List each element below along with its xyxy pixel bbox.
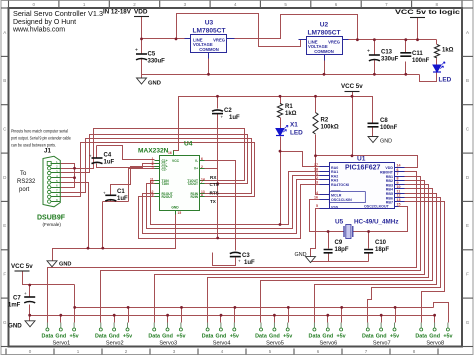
connector Servo2 — [95, 323, 132, 347]
svg-text:R2OUT: R2OUT — [162, 195, 173, 199]
svg-text:Servo3: Servo3 — [159, 341, 177, 347]
svg-text:VCC 5v: VCC 5v — [11, 263, 33, 270]
svg-text:RA4TOCKI: RA4TOCKI — [331, 183, 349, 187]
wire +5V rail — [75, 303, 449, 323]
svg-text:100nF: 100nF — [412, 58, 430, 64]
capacitor C9 18pF — [324, 250, 333, 253]
svg-text:R1: R1 — [285, 104, 293, 110]
svg-text:To: To — [20, 171, 27, 177]
svg-text:Gnd: Gnd — [216, 334, 227, 340]
wire J1 pin5 ground — [61, 183, 89, 249]
resistor 1k top right — [434, 45, 439, 59]
wire 1k resistor leads and LED — [406, 40, 437, 82]
svg-text:+5v: +5v — [390, 334, 399, 340]
wire TTL line 4 U4 to U1 — [139, 185, 320, 239]
svg-text:Gnd: Gnd — [269, 334, 280, 340]
wire C2 leads — [205, 97, 218, 239]
svg-text:Servo5: Servo5 — [266, 341, 284, 347]
capacitor C2 1uF — [212, 110, 223, 111]
svg-text:C5: C5 — [148, 52, 156, 58]
svg-text:13: 13 — [397, 198, 401, 202]
connector Servo1 — [42, 323, 79, 347]
svg-text:Servo7: Servo7 — [373, 341, 391, 347]
svg-text:VSS: VSS — [331, 205, 339, 209]
svg-text:C8: C8 — [380, 118, 388, 124]
svg-text:+5v: +5v — [283, 334, 292, 340]
svg-text:3: 3 — [316, 180, 318, 184]
svg-text:1uF: 1uF — [244, 260, 255, 266]
svg-text:RS232: RS232 — [17, 179, 36, 185]
LED top right — [433, 65, 441, 72]
svg-text:T2OUT: T2OUT — [187, 182, 198, 186]
svg-text:A: A — [3, 30, 6, 35]
svg-text:100kΩ: 100kΩ — [321, 125, 339, 131]
wire crystal net OSC1 — [310, 200, 345, 232]
svg-text:PIC16F627: PIC16F627 — [345, 165, 381, 172]
capacitor C11 100nF — [400, 53, 411, 56]
svg-text:LED: LED — [290, 130, 303, 137]
wire RB5 to Servo6 data — [315, 194, 437, 323]
svg-text:6: 6 — [201, 157, 203, 161]
capacitor C8 100nF — [368, 123, 379, 127]
svg-text:Servo8: Servo8 — [426, 341, 444, 347]
wire RB3 to Servo4 data — [208, 185, 429, 323]
svg-text:Data: Data — [309, 334, 322, 340]
ground bottom left — [25, 321, 35, 327]
svg-text:V+: V+ — [194, 167, 198, 171]
svg-text:Data: Data — [95, 334, 108, 340]
resistor R1 1k — [277, 104, 282, 118]
power symbol VCC 5v (mid right) — [345, 91, 360, 93]
svg-text:VDD: VDD — [134, 9, 148, 16]
connector Servo7 — [362, 323, 399, 347]
svg-text:C4: C4 — [104, 153, 112, 159]
svg-text:16: 16 — [168, 151, 172, 155]
wire RS232 line 1 J1 to U4 — [61, 129, 245, 181]
capacitor C1 1uF — [105, 194, 116, 196]
svg-text:VCC 5v: VCC 5v — [341, 83, 363, 90]
svg-text:GND: GND — [148, 81, 161, 87]
svg-text:LM7805CT: LM7805CT — [308, 30, 341, 37]
svg-text:F: F — [466, 272, 469, 277]
svg-text:B: B — [3, 78, 6, 83]
wire RS232 line 2 J1 to U4 — [61, 135, 248, 184]
svg-text:+: + — [103, 191, 106, 196]
svg-text:18pF: 18pF — [375, 247, 389, 253]
wire C8 branch — [353, 97, 373, 137]
svg-text:Data: Data — [415, 334, 428, 340]
svg-text:2: 2 — [201, 165, 203, 169]
resistor R2 100k — [313, 113, 318, 135]
svg-text:Servo6: Servo6 — [320, 341, 338, 347]
svg-text:8: 8 — [201, 193, 203, 197]
svg-text:C10: C10 — [375, 240, 387, 246]
capacitor C5 330uF — [136, 53, 147, 55]
svg-text:J1: J1 — [44, 148, 51, 155]
svg-text:C11: C11 — [412, 51, 423, 57]
wire C4 connections — [97, 146, 155, 168]
svg-text:port: port — [19, 187, 30, 193]
wire RB1 to Servo2 data — [101, 177, 421, 323]
svg-text:U3: U3 — [205, 20, 214, 27]
connector Servo4 — [202, 323, 239, 347]
svg-text:IN 12-18V: IN 12-18V — [103, 9, 132, 16]
wire U2 output net — [345, 39, 437, 41]
svg-text:Gnd: Gnd — [55, 334, 66, 340]
svg-text:100nF: 100nF — [380, 125, 398, 131]
wire RB6 to Servo7 data — [368, 198, 441, 323]
wire C7 leads — [29, 285, 31, 321]
svg-text:Serial Servo Controller V1.3: Serial Servo Controller V1.3 — [13, 11, 103, 18]
svg-text:Data: Data — [255, 334, 268, 340]
svg-text:+: + — [367, 49, 370, 55]
svg-text:+5v: +5v — [443, 334, 452, 340]
svg-text:Data: Data — [362, 334, 375, 340]
svg-text:R2IN: R2IN — [190, 195, 198, 199]
svg-text:1mF: 1mF — [8, 303, 21, 309]
wire R2 to MCLR — [316, 97, 320, 195]
svg-text:E: E — [466, 223, 469, 228]
svg-text:C7: C7 — [13, 296, 21, 302]
svg-text:15: 15 — [397, 203, 401, 207]
svg-text:7: 7 — [201, 180, 203, 184]
svg-text:F: F — [3, 272, 6, 277]
node VDD 12-18V input net — [142, 14, 303, 47]
connector J1 DSUB9F — [37, 148, 66, 228]
svg-text:+: + — [238, 259, 241, 264]
power symbol VDD — [134, 16, 149, 18]
ground near crystal — [306, 257, 316, 263]
svg-text:Servo4: Servo4 — [213, 341, 231, 347]
svg-text:LED: LED — [439, 77, 452, 84]
wire GND rail — [30, 316, 435, 323]
svg-text:10: 10 — [150, 180, 154, 184]
svg-text:+5v: +5v — [337, 334, 346, 340]
svg-text:VCC: VCC — [172, 159, 180, 163]
svg-text:MAX232N: MAX232N — [138, 148, 169, 155]
svg-text:A: A — [466, 30, 469, 35]
svg-text:Pinouts here match computer se: Pinouts here match computer serial — [11, 129, 68, 134]
svg-text:B: B — [466, 78, 469, 83]
wire VSS to ground — [311, 209, 320, 257]
svg-text:G: G — [3, 320, 7, 325]
svg-text:COMMON: COMMON — [199, 47, 219, 52]
capacitor C13 330uF — [369, 54, 380, 56]
svg-text:VREG: VREG — [328, 40, 340, 45]
svg-text:COMMON: COMMON — [314, 49, 334, 54]
svg-text:Gnd: Gnd — [109, 334, 120, 340]
svg-text:V-: V- — [195, 159, 198, 163]
svg-text:LM7805CT: LM7805CT — [193, 28, 226, 35]
capacitor C3 1uF — [230, 252, 241, 253]
svg-text:RX: RX — [210, 175, 217, 180]
wire V- to C3 — [205, 161, 236, 266]
svg-text:RTS: RTS — [210, 191, 219, 196]
svg-text:+5v: +5v — [70, 334, 79, 340]
svg-text:5: 5 — [152, 166, 154, 170]
wire RB2 to Servo3 data — [155, 181, 425, 323]
svg-text:U2: U2 — [320, 22, 329, 29]
svg-text:+: + — [89, 154, 92, 159]
svg-text:U1: U1 — [357, 156, 366, 163]
svg-text:Servo2: Servo2 — [106, 341, 124, 347]
svg-text:port output. Serial 9 pin exte: port output. Serial 9 pin extender cable — [11, 136, 72, 141]
ground near C8 — [368, 137, 378, 143]
svg-text:C13: C13 — [381, 50, 393, 56]
wire RB7 to Servo8 data — [400, 202, 445, 323]
svg-text:C1: C1 — [117, 189, 125, 195]
wire RB4 to Servo5 data — [261, 189, 433, 323]
wire C13 leads — [374, 40, 376, 75]
title block text — [12, 11, 103, 34]
connector Servo3 — [148, 323, 185, 347]
svg-text:DSUB9F: DSUB9F — [37, 215, 66, 222]
power symbol VCC 5v to logic — [410, 17, 425, 19]
ground near C5 — [141, 75, 143, 79]
svg-text:CTS: CTS — [210, 182, 219, 187]
LED X1 — [276, 129, 284, 136]
svg-text:C3: C3 — [242, 253, 250, 259]
svg-text:C2: C2 — [224, 108, 232, 114]
svg-text:R2: R2 — [321, 118, 329, 124]
svg-text:9: 9 — [152, 193, 154, 197]
svg-text:T2IN: T2IN — [162, 182, 170, 186]
svg-text:G: G — [466, 320, 470, 325]
wire C9 C10 leads and ground — [311, 232, 369, 262]
svg-text:+5v: +5v — [176, 334, 185, 340]
svg-text:Gnd: Gnd — [429, 334, 440, 340]
wire TTL line 3 U4 to U1 — [143, 180, 320, 234]
wire U4 ground — [53, 215, 176, 261]
svg-text:18pF: 18pF — [335, 247, 349, 253]
svg-text:+5v: +5v — [230, 334, 239, 340]
wire U3 output to 5V rail over U2 — [235, 15, 358, 40]
svg-text:330uF: 330uF — [148, 59, 166, 65]
wire RS232 line 4 J1 to U4 — [61, 143, 255, 197]
wire TTL line 2 U4 to U1 — [147, 176, 320, 229]
svg-text:C9: C9 — [335, 240, 343, 246]
svg-text:5: 5 — [316, 204, 318, 208]
svg-text:VCC 5v to logic: VCC 5v to logic — [395, 9, 461, 16]
connector Servo5 — [255, 323, 292, 347]
svg-text:GND: GND — [59, 262, 71, 268]
wire RB0 to Servo1 data — [48, 172, 417, 323]
svg-text:15: 15 — [178, 211, 182, 215]
wire J1 tie bus — [61, 164, 75, 188]
connector Servo6 — [309, 323, 346, 347]
svg-text:Servo1: Servo1 — [53, 341, 71, 347]
voltage regulator U2 LM7805CT — [307, 37, 343, 55]
svg-text:1uF: 1uF — [104, 160, 115, 166]
wire ground run upper — [142, 54, 420, 75]
svg-text:VREG: VREG — [213, 38, 225, 43]
svg-text:OSC2CLKOUT: OSC2CLKOUT — [364, 205, 390, 209]
capacitor C4 1uF — [92, 157, 103, 159]
svg-text:+: + — [24, 291, 27, 296]
svg-text:Gnd: Gnd — [162, 334, 173, 340]
svg-text:1kΩ: 1kΩ — [442, 48, 454, 54]
wire logic VCC distribution — [174, 97, 353, 156]
svg-text:OSC1CLKIN: OSC1CLKIN — [331, 198, 352, 202]
wire VCC 5v bottom feed — [23, 271, 75, 323]
svg-text:Data: Data — [202, 334, 215, 340]
svg-text:GND: GND — [8, 323, 22, 330]
svg-text:1uF: 1uF — [117, 196, 128, 202]
svg-text:330uF: 330uF — [381, 57, 399, 63]
power symbol VCC 5v (bottom left) — [15, 270, 30, 272]
microcontroller U1 PIC16F627 — [314, 156, 405, 210]
capacitor C7 1mF — [24, 296, 35, 298]
wire C5 leads — [141, 39, 143, 75]
voltage regulator U3 LM7805CT — [191, 35, 227, 53]
svg-text:Data: Data — [42, 334, 55, 340]
wire VCC 5v symbol stem to logic rail — [352, 92, 354, 156]
svg-text:+: + — [221, 115, 224, 120]
svg-text:Gnd: Gnd — [322, 334, 333, 340]
transceiver U4 MAX232N — [138, 141, 205, 216]
svg-text:TX: TX — [210, 199, 217, 204]
wire R1 X1 branch — [281, 97, 320, 225]
power symbol VCC 5v to logic stem — [417, 18, 419, 40]
ground near U4 — [47, 261, 57, 267]
wire U1 VDD feed — [316, 156, 418, 168]
svg-text:GND: GND — [380, 139, 392, 145]
svg-text:Designed by O Hunt: Designed by O Hunt — [13, 19, 76, 26]
svg-text:+: + — [135, 48, 138, 54]
capacitor C10 18pF — [364, 250, 373, 253]
wire RS232 line 3 J1 to U4 — [61, 139, 252, 194]
svg-text:16: 16 — [314, 195, 318, 199]
svg-text:E: E — [3, 223, 6, 228]
svg-text:1kΩ: 1kΩ — [285, 111, 297, 117]
svg-text:HC-49/U_4MHz: HC-49/U_4MHz — [354, 219, 399, 226]
svg-text:(Female): (Female) — [43, 222, 62, 227]
svg-text:X1: X1 — [290, 122, 298, 129]
connector Servo8 — [415, 323, 452, 347]
wire C1 connections — [103, 167, 155, 249]
svg-text:1uF: 1uF — [229, 115, 240, 121]
svg-text:GND: GND — [295, 252, 307, 258]
svg-text:+5v: +5v — [123, 334, 132, 340]
svg-text:www.hvlabs.com: www.hvlabs.com — [12, 27, 65, 34]
svg-text:U4: U4 — [184, 141, 193, 148]
note text box — [11, 129, 72, 148]
crystal U5 HC-49/U 4MHz — [335, 219, 399, 239]
svg-text:U5: U5 — [335, 219, 344, 226]
wire crystal net OSC2 — [353, 207, 408, 232]
svg-text:GND: GND — [171, 206, 179, 210]
wire TTL line 1 U4 to U1 — [151, 172, 320, 225]
svg-text:C2-: C2- — [162, 168, 167, 172]
svg-text:Data: Data — [148, 334, 161, 340]
svg-text:Gnd: Gnd — [376, 334, 387, 340]
wire C11 top lead — [405, 40, 407, 53]
